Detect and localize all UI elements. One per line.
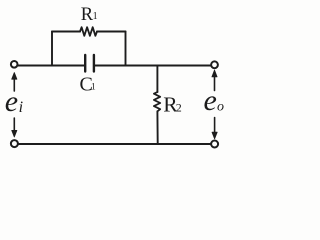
arrow ei down bbox=[12, 118, 17, 137]
wire top right segment bbox=[95, 65, 211, 67]
wire box top-left horizontal bbox=[52, 31, 80, 33]
resistor R1 bbox=[80, 27, 97, 36]
svg-text:o: o bbox=[217, 100, 224, 115]
arrow eo down bbox=[212, 118, 217, 139]
svg-text:e: e bbox=[5, 85, 18, 118]
terminal bottom-left bbox=[11, 140, 18, 147]
arrow eo up bbox=[212, 70, 217, 91]
wire top left segment bbox=[18, 65, 85, 67]
terminal top-left bbox=[11, 61, 18, 68]
wire box right vertical bbox=[125, 32, 127, 66]
label eo bbox=[204, 84, 225, 117]
svg-text:1: 1 bbox=[91, 82, 96, 92]
svg-text:2: 2 bbox=[176, 101, 182, 115]
label R2 bbox=[163, 92, 182, 116]
svg-text:i: i bbox=[19, 99, 23, 116]
resistor R2 bbox=[154, 92, 160, 111]
label ei bbox=[5, 85, 23, 118]
label C1 bbox=[80, 74, 97, 96]
wire R2 branch upper bbox=[156, 66, 158, 93]
wire box top-right horizontal bbox=[97, 31, 126, 33]
wire box left vertical bbox=[51, 32, 53, 66]
capacitor C1 bbox=[85, 55, 94, 72]
wire bottom bbox=[18, 143, 211, 145]
wire R2 branch lower bbox=[156, 111, 158, 144]
terminal bottom-right bbox=[211, 141, 218, 148]
terminal top-right bbox=[211, 61, 218, 68]
label R1 bbox=[81, 5, 98, 25]
svg-text:e: e bbox=[204, 84, 217, 117]
svg-text:1: 1 bbox=[93, 11, 98, 22]
arrow ei up bbox=[12, 73, 17, 92]
